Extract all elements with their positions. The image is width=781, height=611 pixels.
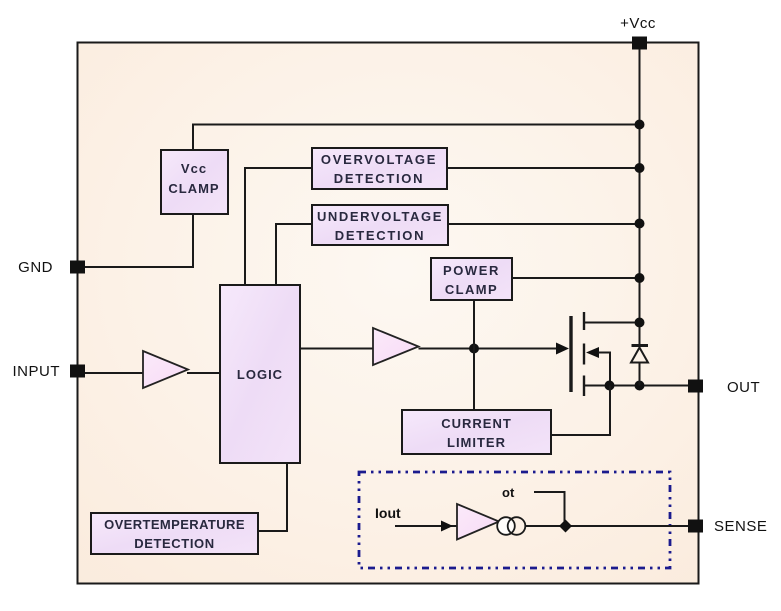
wire overvoltage to logic <box>245 168 312 285</box>
pin SENSE <box>688 518 767 535</box>
wire source to OUT <box>584 385 689 387</box>
node drain junction <box>635 318 645 328</box>
svg-text:GND: GND <box>18 259 53 276</box>
svg-text:OVERTEMPERATURE: OVERTEMPERATURE <box>104 517 245 532</box>
wire GND to Vcc clamp <box>78 214 193 267</box>
svg-text:Vcc: Vcc <box>181 161 207 176</box>
svg-text:Iout: Iout <box>375 505 401 521</box>
wire logic to overtemperature <box>258 463 287 531</box>
wire logic to buffer A2 <box>300 348 373 350</box>
Vcc clamp U1 <box>161 150 228 214</box>
ot tap wire <box>534 492 565 526</box>
wire Iout input <box>395 525 457 527</box>
pin GND <box>18 259 85 276</box>
svg-text:+Vcc: +Vcc <box>620 15 656 32</box>
svg-text:DETECTION: DETECTION <box>134 536 215 551</box>
svg-text:OVERVOLTAGE: OVERVOLTAGE <box>321 152 437 167</box>
undervoltage detection block <box>312 205 448 245</box>
wire buffer to logic <box>187 372 220 374</box>
wire drain to Vcc rail <box>584 322 640 324</box>
svg-text:CLAMP: CLAMP <box>168 181 219 196</box>
node diode bottom junction <box>635 381 645 391</box>
wire undervoltage to Vcc rail <box>448 223 640 225</box>
overtemperature detection block <box>91 513 258 554</box>
wire buffer A2 to gate <box>419 348 558 350</box>
wire overvoltage to Vcc rail <box>447 167 640 169</box>
node sense diamond junction <box>559 520 572 533</box>
node undervoltage junction <box>635 219 645 229</box>
current limiter block <box>402 410 551 454</box>
overvoltage detection block <box>312 148 447 189</box>
Iout arrow <box>441 521 453 532</box>
svg-text:INPUT: INPUT <box>13 363 61 380</box>
pin INPUT <box>13 363 86 380</box>
svg-text:ot: ot <box>502 485 515 500</box>
svg-text:LIMITER: LIMITER <box>447 435 506 450</box>
transistor Q1 gate arrow <box>556 343 569 355</box>
svg-text:DETECTION: DETECTION <box>334 171 424 186</box>
svg-text:UNDERVOLTAGE: UNDERVOLTAGE <box>317 209 443 224</box>
sense buffer A3 <box>457 504 499 540</box>
buffer A2 gate driver <box>373 328 419 365</box>
svg-text:SENSE: SENSE <box>714 518 767 535</box>
svg-text:OUT: OUT <box>727 379 760 396</box>
wire sense output <box>526 525 690 527</box>
svg-text:DETECTION: DETECTION <box>335 228 425 243</box>
transistor Q1 MOSFET <box>571 312 584 396</box>
wire source to current limiter <box>551 386 610 436</box>
pin OUT <box>688 379 760 396</box>
node top rail junction <box>635 120 645 130</box>
ot label <box>502 485 515 500</box>
node gate drive junction <box>469 344 479 354</box>
current source CS1 <box>497 517 525 535</box>
wire undervoltage to logic <box>276 224 312 285</box>
node power clamp junction <box>635 273 645 283</box>
power clamp block <box>431 258 512 300</box>
svg-text:POWER: POWER <box>443 263 500 278</box>
diode D1 <box>631 346 648 386</box>
svg-text:LOGIC: LOGIC <box>237 367 283 382</box>
IC outline box <box>78 43 699 584</box>
buffer A1 input <box>143 351 188 388</box>
current sense dashed box <box>359 472 670 568</box>
Iout label <box>375 505 401 521</box>
transistor Q1 body arrow <box>586 347 610 386</box>
wire power clamp to Vcc rail <box>512 277 640 279</box>
wire INPUT to buffer <box>78 372 143 374</box>
wire +Vcc vertical rail <box>639 43 641 344</box>
wire power clamp to current limiter <box>473 300 475 410</box>
svg-text:CLAMP: CLAMP <box>445 282 498 297</box>
logic block <box>220 285 300 463</box>
svg-text:CURRENT: CURRENT <box>441 416 512 431</box>
pin +Vcc <box>620 15 656 50</box>
node source body junction <box>605 381 615 391</box>
node overvoltage junction <box>635 163 645 173</box>
wire top rail <box>193 125 640 151</box>
